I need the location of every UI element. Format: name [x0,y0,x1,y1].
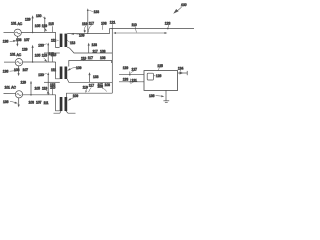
svg-text:109: 109 [76,66,82,70]
svg-text:107: 107 [23,68,29,72]
svg-text:133: 133 [94,10,100,14]
svg-text:101: 101 [11,22,17,26]
svg-text:109: 109 [73,94,79,98]
label 101 AC (phase 2) [10,53,22,57]
svg-text:136: 136 [3,69,9,73]
vertical bus line [111,29,113,94]
primary return wire (phase 3) [54,111,62,113]
svg-text:117: 117 [88,56,93,60]
label 133 (phase 1 top) [89,10,99,14]
output line with arrow (134) [178,71,188,75]
secondary top wire (phase 2) [69,61,112,67]
ground stem (136) [165,90,167,100]
label 123 with lead [165,21,171,29]
label 131 with lead [130,78,137,84]
svg-text:117: 117 [93,49,98,53]
box input line 2 [119,81,144,83]
svg-text:103: 103 [29,101,35,105]
svg-text:136: 136 [3,40,9,44]
riser to dc bus (phase 1) [109,29,111,34]
wire phase3 main [23,94,56,96]
svg-text:129: 129 [123,66,129,70]
label 109 with lead (phase 3) [68,94,79,100]
dc bus top line 121 [110,28,195,30]
svg-text:115: 115 [49,52,54,56]
label 136 with lead (ground) [149,94,164,98]
AC source 101 (phase 2) [15,59,22,66]
svg-text:129: 129 [21,80,27,84]
transformer windings 109/113 (phase 3) [60,97,67,111]
labels 117 108 (phase 1 bottom) [93,49,106,53]
load box 125 [144,71,178,91]
input lead wire (phase 3) [4,93,16,95]
svg-text:108: 108 [100,49,106,53]
svg-text:130: 130 [36,14,42,18]
figure designator 100 [173,3,186,14]
label 136 with lead arrow (phase 3) [3,100,18,104]
svg-text:129: 129 [22,48,28,52]
svg-text:105: 105 [35,86,41,90]
label 130 with stub arrow (phase 1 lower) [38,43,49,63]
wire phase2 main [23,61,56,63]
labels 117 108 (phase 2 bottom) [98,83,111,87]
winding bottom hook (phase 3) [66,111,76,113]
label 108 (phase 1 top) [101,21,107,30]
svg-text:119: 119 [83,86,88,90]
secondary top wire (phase 3) [67,93,113,97]
svg-text:AC: AC [11,86,16,90]
svg-text:113: 113 [70,41,75,45]
svg-text:119: 119 [42,86,47,90]
svg-text:109: 109 [79,34,85,38]
label 130 with stub arrow (phase 2 lower) [38,72,49,95]
svg-text:107: 107 [24,38,30,42]
secondary bottom wire (phase 2) [67,79,112,82]
svg-text:130: 130 [38,44,44,48]
svg-text:125: 125 [157,64,163,68]
tap on line 2 [130,79,132,83]
tap on line 1 [129,72,131,76]
label 115 with stub (phase 3 upper) [50,85,55,95]
svg-text:119: 119 [81,56,86,60]
label 109 with lead (phase 2) [67,66,81,71]
switch stub 129 arrow (phase 1) [32,15,34,32]
AC source 101 (phase 1) [14,29,21,36]
svg-text:108: 108 [105,83,111,87]
switch stub 133 arrow (phase 1) [88,43,90,53]
label 126 with lead [154,74,162,78]
svg-text:136: 136 [149,94,155,98]
neutral stub below source (phase 2) [18,66,20,76]
svg-text:115: 115 [48,22,53,26]
switch stub 133 arrow (phase 2) [88,72,90,82]
svg-text:AC: AC [17,53,22,57]
input lead wire (phase 1) [4,32,15,34]
junction node (phase 1) [32,32,34,34]
labels 105 119 with leads (phase 2) [35,54,47,62]
label 115 with stub (phase 2 upper) [49,52,54,62]
label 136 with lead arrow (phase 1 neutral) [3,40,17,44]
junction node (phase 2) [32,61,34,63]
svg-text:119: 119 [42,54,47,58]
primary lead corner (phase 1) [56,32,60,47]
svg-text:AC: AC [18,22,23,26]
label 101 AC (phase 3) [5,85,17,89]
svg-text:117: 117 [89,21,94,25]
secondary top wire (phase 1) [67,33,109,35]
neutral stub below source (phase 3) [18,98,20,108]
svg-text:101: 101 [5,85,11,89]
ground symbol [163,101,169,103]
secondary bottom wire (phase 1) [67,47,112,53]
label 101 AC (phase 1) [11,22,23,26]
primary lead corner (phase 2) [56,62,60,79]
svg-text:119: 119 [82,22,87,26]
switch stub 129 arrow (phase 2) [32,45,34,62]
svg-text:121: 121 [110,20,116,24]
svg-text:111: 111 [51,38,56,42]
label 127 with lead [130,68,137,74]
box input line 1 [119,74,144,76]
label 125 with lead [157,64,163,70]
labels 105 119 with leads (phase 1) [35,24,47,31]
svg-text:131: 131 [132,78,138,82]
svg-text:126: 126 [156,74,162,78]
labels 119 117 with curved leads (phase 1 top) [82,21,94,33]
svg-text:108: 108 [98,84,104,88]
switch stub 133 arrow (phase 1 top) [87,8,89,33]
transformer windings 109/113 (phase 1) [60,34,67,47]
svg-text:105: 105 [35,54,41,58]
svg-text:103: 103 [14,68,20,72]
svg-text:133: 133 [123,77,129,81]
svg-text:136: 136 [3,100,9,104]
input lead wire (phase 2) [4,61,15,63]
svg-text:111: 111 [44,101,49,105]
primary return wire (phase 2) [44,81,60,83]
svg-text:103: 103 [16,38,22,42]
svg-text:117: 117 [89,84,94,88]
svg-text:100: 100 [181,3,187,7]
label 130 with stub arrow (phase 1 upper) [36,14,46,32]
svg-text:130: 130 [38,73,44,77]
labels 119 117 108 (phase 3 top) [83,84,107,93]
svg-text:123: 123 [165,21,171,25]
svg-text:129: 129 [25,17,31,21]
svg-text:133: 133 [92,43,98,47]
labels 119 117 (phase 2 top) [81,56,93,61]
switch stub 129 arrow (phase 3) [30,81,32,95]
transformer windings 109/113 (phase 2) [60,67,67,80]
labels 105 119 with leads (phase 3) [35,86,51,93]
svg-text:107: 107 [36,101,42,105]
primary lead corner (phase 3) [56,95,60,111]
label 115 with stub (phase 1 upper) [48,22,53,33]
svg-text:127: 127 [132,68,138,72]
label 121 (dc bus +) [110,20,116,27]
primary return wire (phase 1) [44,52,60,54]
svg-text:108: 108 [101,21,107,25]
label 134 with lead [178,66,184,71]
AC source 101 (phase 3) [15,91,22,98]
svg-text:110: 110 [132,23,137,27]
label 113 with lead (phase 1) [67,40,76,45]
junction node (phase 3) [30,94,32,96]
inner module 126 [147,73,153,80]
label 109 with lead (phase 1) [71,33,85,38]
svg-text:111: 111 [51,68,56,72]
label 110 with lead (current line) [132,23,137,33]
junction on bus [112,28,114,30]
svg-text:101: 101 [10,53,16,57]
svg-text:108: 108 [100,56,106,60]
svg-text:133: 133 [93,75,99,79]
svg-text:105: 105 [35,24,41,28]
label 136 with lead arrow (phase 2) [3,69,18,73]
current line with double arrow [113,32,167,34]
wire phase1 main [21,31,55,33]
neutral stub below source (phase 1) [16,36,18,46]
svg-text:115: 115 [50,85,55,89]
